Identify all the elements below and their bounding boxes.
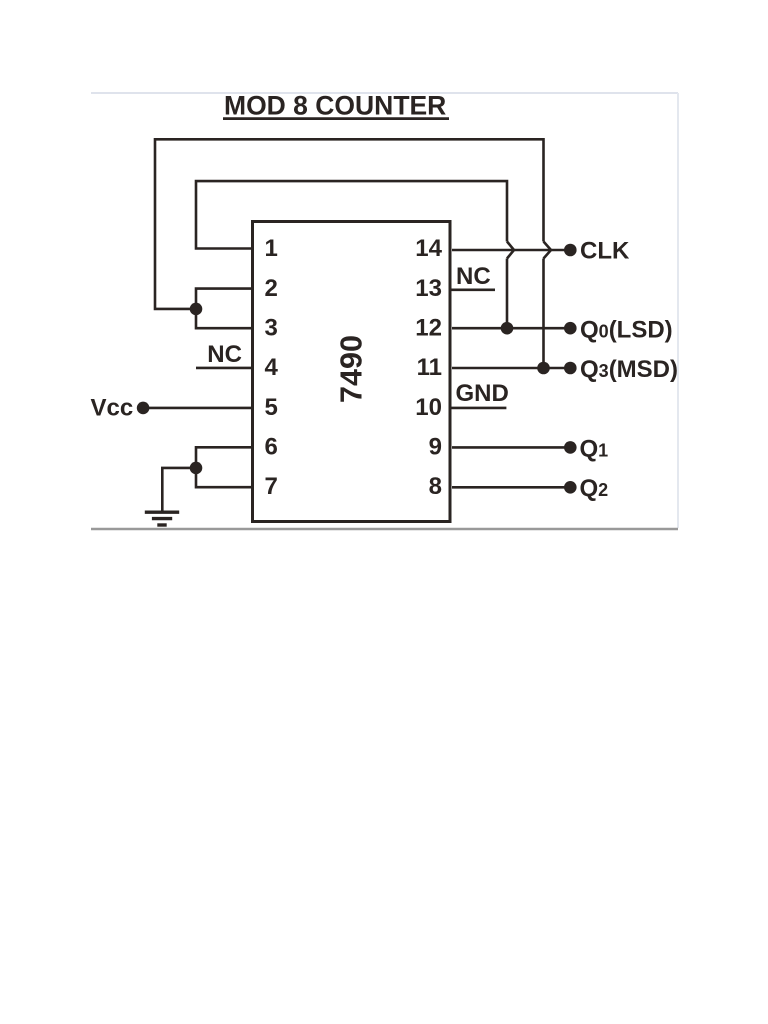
svg-text:NC: NC — [456, 263, 491, 290]
svg-text:1: 1 — [265, 235, 278, 262]
svg-text:3: 3 — [265, 315, 278, 342]
svg-text:7: 7 — [265, 473, 278, 500]
svg-text:Q1: Q1 — [580, 435, 609, 462]
svg-text:CLK: CLK — [580, 238, 630, 265]
svg-text:Q2: Q2 — [580, 475, 609, 502]
svg-text:7490: 7490 — [335, 335, 369, 403]
svg-text:GND: GND — [456, 380, 509, 407]
svg-text:8: 8 — [429, 473, 442, 500]
svg-text:4: 4 — [265, 354, 279, 381]
svg-text:2: 2 — [265, 275, 278, 302]
svg-text:11: 11 — [417, 354, 442, 381]
svg-text:5: 5 — [265, 394, 278, 421]
svg-text:9: 9 — [429, 434, 442, 461]
svg-text:10: 10 — [415, 394, 442, 421]
svg-text:6: 6 — [265, 434, 278, 461]
svg-text:14: 14 — [415, 235, 442, 262]
svg-text:12: 12 — [415, 315, 442, 342]
svg-text:13: 13 — [415, 275, 442, 302]
svg-text:Q0(LSD): Q0(LSD) — [580, 316, 673, 343]
svg-text:NC: NC — [207, 341, 242, 368]
svg-text:Q3(MSD): Q3(MSD) — [580, 356, 678, 383]
svg-text:MOD 8 COUNTER: MOD 8 COUNTER — [224, 91, 446, 121]
svg-text:Vcc: Vcc — [91, 395, 134, 422]
